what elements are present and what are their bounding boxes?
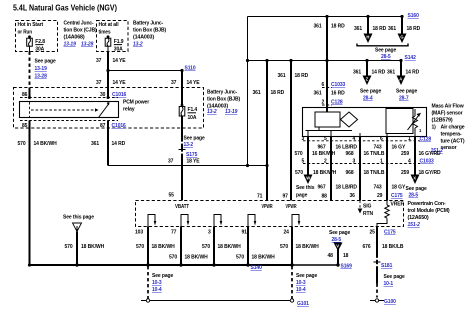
wire labels 967 16 LB/RD and 743 16 GY	[318, 145, 406, 151]
svg-text:18 GY/RD: 18 GY/RD	[419, 170, 441, 176]
PCM internal driver staple for pin 77	[181, 215, 189, 227]
svg-text:times: times	[99, 30, 111, 36]
wire: PCM pin 91 570 18 BK/WH to ground bus	[236, 227, 275, 266]
off-page arrow H, 361 18 RD	[354, 17, 387, 44]
svg-text:(14A068): (14A068)	[64, 35, 86, 41]
svg-text:RTN: RTN	[363, 211, 373, 217]
svg-text:VPWR: VPWR	[286, 204, 297, 210]
svg-text:18 BK/LB: 18 BK/LB	[382, 244, 404, 250]
svg-text:ture (ACT): ture (ACT)	[441, 139, 465, 145]
svg-text:55: 55	[169, 193, 175, 199]
svg-text:18: 18	[343, 253, 349, 259]
svg-text:(14A003): (14A003)	[133, 35, 155, 41]
svg-text:18 LB/RD: 18 LB/RD	[336, 185, 358, 191]
junction dots on distribution lines	[265, 15, 403, 62]
wire labels 570 16 BK/WH, 968 16 TN/LB, 259 16 GY/RD	[295, 151, 441, 157]
svg-text:C1016: C1016	[112, 123, 127, 129]
wire: fuse F1.4 to PCM pin 55, 37 18 YE with splice S175	[182, 116, 205, 201]
svg-text:SIG: SIG	[363, 204, 372, 210]
svg-text:16 TN/LB: 16 TN/LB	[364, 151, 385, 157]
svg-text:259: 259	[401, 151, 409, 157]
svg-text:85: 85	[22, 123, 28, 129]
label: Powertrain Control Module (PCM) (12A650) 151-2	[408, 201, 450, 228]
svg-text:36: 36	[350, 193, 356, 199]
PCM internal driver staple for pin 103	[148, 215, 156, 227]
svg-text:570: 570	[65, 244, 73, 250]
svg-text:13-19: 13-19	[64, 42, 77, 48]
svg-text:18 BK/WH: 18 BK/WH	[218, 244, 242, 250]
svg-text:29: 29	[377, 193, 383, 199]
PCM internal driver staple for pin 91	[248, 215, 256, 227]
svg-text:361: 361	[278, 73, 286, 79]
svg-text:16 GY/RD: 16 GY/RD	[419, 151, 441, 157]
splice S110	[106, 66, 195, 73]
svg-text:18 BK/WH: 18 BK/WH	[313, 170, 337, 176]
svg-text:18 BK/WH: 18 BK/WH	[152, 244, 176, 250]
label: Mass Air Flow (MAF) sensor (12B579), ACT footnote	[431, 104, 465, 155]
svg-text:743: 743	[374, 185, 382, 191]
wire: PCM pin 25 676 18 BK/LB to ground G100	[363, 227, 404, 284]
svg-text:F1.9: F1.9	[114, 39, 124, 45]
fuse box: Battery Junction Box (hot at all times)	[97, 21, 129, 52]
svg-text:(12A650): (12A650)	[408, 215, 430, 221]
svg-text:570: 570	[202, 244, 210, 250]
label: Central Junction Box (CJB) (14A068)	[64, 21, 97, 48]
svg-text:91: 91	[242, 230, 248, 236]
svg-text:tion Box (CJB): tion Box (CJB)	[64, 28, 97, 34]
svg-text:151-2: 151-2	[408, 222, 421, 228]
PCM internal labels VBATT VPWR VPWR	[175, 204, 297, 210]
svg-text:14 YE: 14 YE	[187, 80, 201, 86]
svg-text:16 GY: 16 GY	[392, 145, 406, 151]
wire: MAF pin 6 743 18 GY to PCM pin 29	[374, 137, 406, 201]
wire: 361 RD horizontal run to VPWR branch	[108, 164, 269, 167]
svg-text:361: 361	[353, 70, 361, 76]
svg-text:S169: S169	[341, 264, 353, 270]
svg-text:28-5: 28-5	[381, 54, 391, 60]
svg-text:(MAF) sensor: (MAF) sensor	[432, 111, 463, 117]
svg-text:570: 570	[295, 170, 303, 176]
svg-text:259: 259	[401, 170, 409, 176]
ground bus wire 570	[28, 263, 340, 266]
svg-text:C128: C128	[331, 100, 343, 106]
svg-text:24: 24	[284, 230, 290, 236]
wire: relay pin 85 to ground bus, 570 14 BK/WH	[18, 121, 58, 266]
svg-text:361: 361	[388, 26, 396, 32]
svg-text:968: 968	[346, 151, 354, 157]
svg-text:13-28: 13-28	[35, 74, 48, 80]
fuse F1.9 30A	[105, 35, 124, 52]
svg-text:361: 361	[354, 26, 362, 32]
svg-text:VPWR: VPWR	[262, 204, 273, 210]
splice S181	[374, 262, 393, 269]
svg-text:10-4: 10-4	[296, 287, 306, 293]
svg-text:88: 88	[322, 194, 328, 200]
off-page arrow Z, 361 14 RD to page 28-4	[353, 61, 386, 102]
svg-text:F2.8: F2.8	[35, 39, 45, 45]
svg-text:18 RD: 18 RD	[331, 24, 345, 30]
svg-text:28-7: 28-7	[399, 96, 409, 102]
wire: S110 down to fuse F1.4, 37 14 YE	[171, 71, 200, 105]
svg-text:14 YE: 14 YE	[113, 58, 127, 64]
splice S175	[179, 142, 198, 158]
bracket: see page 28-5	[357, 44, 408, 61]
svg-text:37: 37	[96, 80, 102, 86]
svg-text:Hot at all: Hot at all	[99, 22, 120, 28]
label: Battery Junction Box (BJB) (14A003) 13-2 13-19	[207, 90, 240, 116]
svg-text:X: X	[413, 176, 416, 181]
svg-text:tempera-: tempera-	[441, 132, 463, 138]
svg-text:10A: 10A	[188, 115, 197, 121]
PCM bottom pins 103 77 3 91 24 and connector C175 pin 25	[135, 230, 396, 236]
svg-text:V: V	[336, 244, 339, 249]
fuse F2.8 30A	[27, 35, 46, 52]
svg-text:30A: 30A	[114, 46, 123, 52]
wire: bus drop to ground G101 (left)	[148, 266, 173, 299]
svg-text:18 RD: 18 RD	[271, 90, 285, 96]
thermistor (ACT sensor) inside MAF	[408, 109, 423, 137]
svg-text:See page: See page	[375, 48, 396, 54]
svg-text:Battery Junc-: Battery Junc-	[133, 21, 163, 27]
svg-text:Air charge: Air charge	[441, 125, 465, 131]
svg-text:sensor: sensor	[441, 145, 457, 151]
svg-text:361: 361	[314, 24, 322, 30]
svg-text:G100: G100	[384, 299, 396, 305]
wire: branch from 37 YE to splice S110	[108, 70, 182, 72]
svg-text:Mass Air Flow: Mass Air Flow	[432, 104, 464, 110]
svg-text:18 RD: 18 RD	[407, 26, 421, 32]
svg-text:14 YE: 14 YE	[113, 80, 127, 86]
wire: 361 RD feed to MAF via C1033 pin 6 and C128 pin 2	[314, 17, 346, 108]
wire: 361 RD to PCM pin 71 VPWR	[253, 61, 285, 201]
PCM internal driver staple for pin 24	[292, 215, 300, 227]
wire: 361 RD upper distribution line	[248, 16, 403, 18]
svg-text:14 RD: 14 RD	[112, 141, 126, 147]
svg-text:30A: 30A	[35, 46, 44, 52]
svg-text:18 BK/WH: 18 BK/WH	[185, 255, 209, 261]
relay K1: PCM power relay	[20, 102, 119, 118]
incoming arrow from page 28-5 at bus right end	[328, 230, 351, 265]
svg-text:See page: See page	[329, 230, 350, 236]
svg-text:97: 97	[283, 194, 289, 200]
svg-text:See page: See page	[184, 136, 205, 142]
svg-text:361: 361	[253, 90, 261, 96]
svg-text:Z: Z	[366, 77, 369, 82]
wire: bus drop to ground G101 (right)	[292, 266, 317, 299]
ground G100	[370, 299, 396, 305]
svg-text:18 TN/LB: 18 TN/LB	[364, 170, 385, 176]
svg-text:18 BK/WH: 18 BK/WH	[252, 255, 276, 261]
svg-text:18 GY: 18 GY	[392, 185, 406, 191]
PCM internal driver staple for pin 3	[214, 215, 222, 227]
connector C1016 (relay top) pins 86 and 30	[20, 92, 127, 99]
svg-text:C175: C175	[391, 193, 403, 199]
svg-text:71: 71	[257, 194, 263, 200]
svg-text:See page: See page	[35, 59, 56, 65]
svg-text:968: 968	[346, 170, 354, 176]
svg-text:VREF: VREF	[391, 202, 404, 208]
svg-text:18 RD: 18 RD	[295, 73, 309, 79]
svg-text:10-3: 10-3	[296, 280, 306, 286]
svg-text:S181: S181	[381, 263, 393, 269]
wire: CJB fuse F2.8 to relay pin 86 (hot feed)	[30, 46, 56, 97]
svg-text:676: 676	[363, 244, 371, 250]
svg-text:361: 361	[314, 91, 322, 97]
PCM internal SIG RTN arrow	[358, 201, 374, 218]
svg-text:16 LB/RD: 16 LB/RD	[336, 145, 358, 151]
connector C1016 (relay bottom) pins 85 and 87	[20, 121, 126, 130]
svg-text:16 BK/WH: 16 BK/WH	[312, 151, 336, 157]
svg-text:361: 361	[387, 70, 395, 76]
PCM internal VREF pull-up resistor R1	[377, 201, 403, 227]
wire: MAF pin 3 power ground 570 to this page (arrow W)	[295, 137, 337, 199]
svg-text:C1033: C1033	[331, 82, 346, 88]
wire: PCM pin 24 570 18 BK/WH to ground bus	[280, 227, 319, 266]
svg-text:16 RD: 16 RD	[331, 91, 345, 97]
off-page arrow A, 361 14 RD to page 28-7, splice S142	[387, 55, 420, 102]
svg-text:18 RD: 18 RD	[373, 26, 387, 32]
svg-text:See page: See page	[406, 186, 427, 192]
svg-text:(12B579): (12B579)	[432, 118, 454, 124]
svg-text:570: 570	[169, 255, 177, 261]
svg-text:28-4: 28-4	[363, 96, 373, 102]
svg-text:13-19: 13-19	[225, 109, 238, 115]
wire: 361 RD riser	[247, 17, 249, 166]
svg-text:25: 25	[370, 230, 376, 236]
svg-text:18 BK/WH: 18 BK/WH	[296, 244, 320, 250]
svg-text:18 BK/WH: 18 BK/WH	[81, 244, 105, 250]
svg-text:570: 570	[280, 244, 288, 250]
svg-text:Hot in Start: Hot in Start	[18, 22, 44, 28]
svg-text:570: 570	[136, 244, 144, 250]
svg-text:103: 103	[135, 230, 143, 236]
wire: BJB fuse F1.9 output 37 14 YE to relay pin 30	[96, 46, 126, 97]
svg-text:87: 87	[100, 123, 106, 129]
wire: 361 RD lower distribution line	[248, 60, 402, 62]
svg-text:5.4L Natural Gas Vehicle (NGV): 5.4L Natural Gas Vehicle (NGV)	[13, 4, 117, 13]
wire: 361 RD to PCM pin 97 VPWR	[278, 61, 309, 201]
svg-text:10-4: 10-4	[152, 287, 162, 293]
svg-text:37: 37	[171, 80, 177, 86]
wire: PCM pin 103 570 18 BK/WH to ground bus	[136, 227, 175, 266]
svg-text:77: 77	[171, 230, 177, 236]
svg-text:570: 570	[236, 255, 244, 261]
wire: PCM pin 3 570 18 BK/WH to ground bus	[202, 227, 241, 266]
incoming arrow W from this page, 570 18 BK/WH	[63, 215, 105, 266]
svg-text:C1033: C1033	[420, 159, 435, 165]
svg-text:48: 48	[328, 253, 334, 259]
svg-text:37: 37	[168, 159, 174, 165]
svg-text:See this page: See this page	[63, 215, 94, 221]
svg-text:See page: See page	[152, 273, 173, 279]
wire: MAF pin 1 259 18 GY/RD to page 28-5	[401, 137, 441, 199]
wire: MAF pin 5 967 18 LB/RD to PCM pin 88	[318, 137, 358, 201]
svg-text:14 RD: 14 RD	[406, 70, 420, 76]
svg-text:13-19: 13-19	[35, 66, 48, 72]
svg-text:A: A	[399, 77, 402, 82]
svg-text:W: W	[306, 176, 310, 181]
svg-text:967: 967	[318, 185, 326, 191]
svg-text:PCM power: PCM power	[123, 100, 149, 106]
svg-text:S140: S140	[251, 265, 263, 271]
off-page arrow G, 361 18 RD	[388, 17, 421, 44]
svg-text:tion Box (BJB): tion Box (BJB)	[207, 97, 240, 103]
fuse box: Central Junction Box (hot in start or run)	[16, 21, 58, 52]
svg-text:Battery Junc-: Battery Junc-	[207, 90, 237, 96]
svg-text:13-2: 13-2	[133, 42, 143, 48]
svg-text:See page: See page	[396, 89, 417, 95]
svg-text:361: 361	[91, 141, 99, 147]
PCM U2: Powertrain Control Module box	[136, 201, 404, 227]
svg-text:28-5: 28-5	[332, 237, 342, 243]
svg-text:G: G	[400, 35, 403, 40]
svg-text:tion Box (BJB): tion Box (BJB)	[133, 28, 166, 34]
svg-text:C128: C128	[420, 137, 432, 143]
svg-text:S160: S160	[408, 13, 420, 19]
svg-text:570: 570	[18, 141, 26, 147]
ground G101	[141, 299, 309, 307]
wire: PCM pin 77 570 18 BK/WH to ground bus	[169, 227, 208, 266]
svg-text:37: 37	[96, 58, 102, 64]
svg-text:trol Module (PCM): trol Module (PCM)	[408, 208, 450, 214]
svg-text:relay: relay	[123, 107, 135, 113]
svg-text:13-2: 13-2	[207, 109, 217, 115]
wire: relay pin 87 output 361 14 RD	[91, 121, 126, 166]
svg-text:S142: S142	[405, 55, 417, 61]
svg-text:See page: See page	[296, 273, 317, 279]
svg-text:or Run: or Run	[18, 30, 33, 36]
svg-text:14 BK/WH: 14 BK/WH	[34, 141, 58, 147]
svg-text:1): 1)	[432, 125, 437, 131]
label: PCM power relay	[123, 100, 149, 113]
label: Battery Junction Box (BJB) (14A003)	[133, 21, 166, 48]
svg-text:H: H	[366, 35, 369, 40]
svg-text:S110: S110	[185, 66, 196, 72]
svg-text:13-28: 13-28	[81, 42, 94, 48]
svg-text:28-5: 28-5	[409, 193, 419, 199]
junction box: BJB relay/fuse section	[14, 88, 204, 129]
svg-text:Powertrain Con-: Powertrain Con-	[408, 201, 446, 207]
svg-text:3: 3	[208, 230, 211, 236]
svg-text:18 YE: 18 YE	[187, 159, 201, 165]
svg-text:967: 967	[318, 145, 326, 151]
svg-text:S175: S175	[186, 152, 198, 158]
svg-text:13-2: 13-2	[184, 142, 194, 148]
svg-text:page: page	[296, 193, 308, 199]
svg-text:Central Junc-: Central Junc-	[64, 21, 94, 27]
connector C128 pins 3 5 4 6 1	[302, 136, 432, 143]
svg-text:See this: See this	[296, 185, 315, 191]
svg-text:See page: See page	[384, 274, 405, 280]
wire: MAF pin 4 968 18 TN/LB to PCM pin 36	[346, 137, 385, 201]
svg-text:See page: See page	[360, 89, 381, 95]
svg-text:570: 570	[295, 151, 303, 157]
svg-text:10-1: 10-1	[384, 281, 394, 287]
connector C1033 pins 5 2 3 1 4	[302, 159, 435, 165]
MAF sensor U1 (12B579) box	[303, 108, 427, 137]
svg-text:C175: C175	[384, 230, 396, 236]
svg-text:G101: G101	[297, 301, 309, 307]
svg-text:10-3: 10-3	[152, 280, 162, 286]
svg-text:743: 743	[374, 145, 382, 151]
fuse F1.4 10A	[179, 104, 197, 121]
svg-text:VBATT: VBATT	[175, 204, 189, 210]
svg-text:14 RD: 14 RD	[372, 70, 386, 76]
svg-text:F1.4: F1.4	[188, 107, 198, 113]
